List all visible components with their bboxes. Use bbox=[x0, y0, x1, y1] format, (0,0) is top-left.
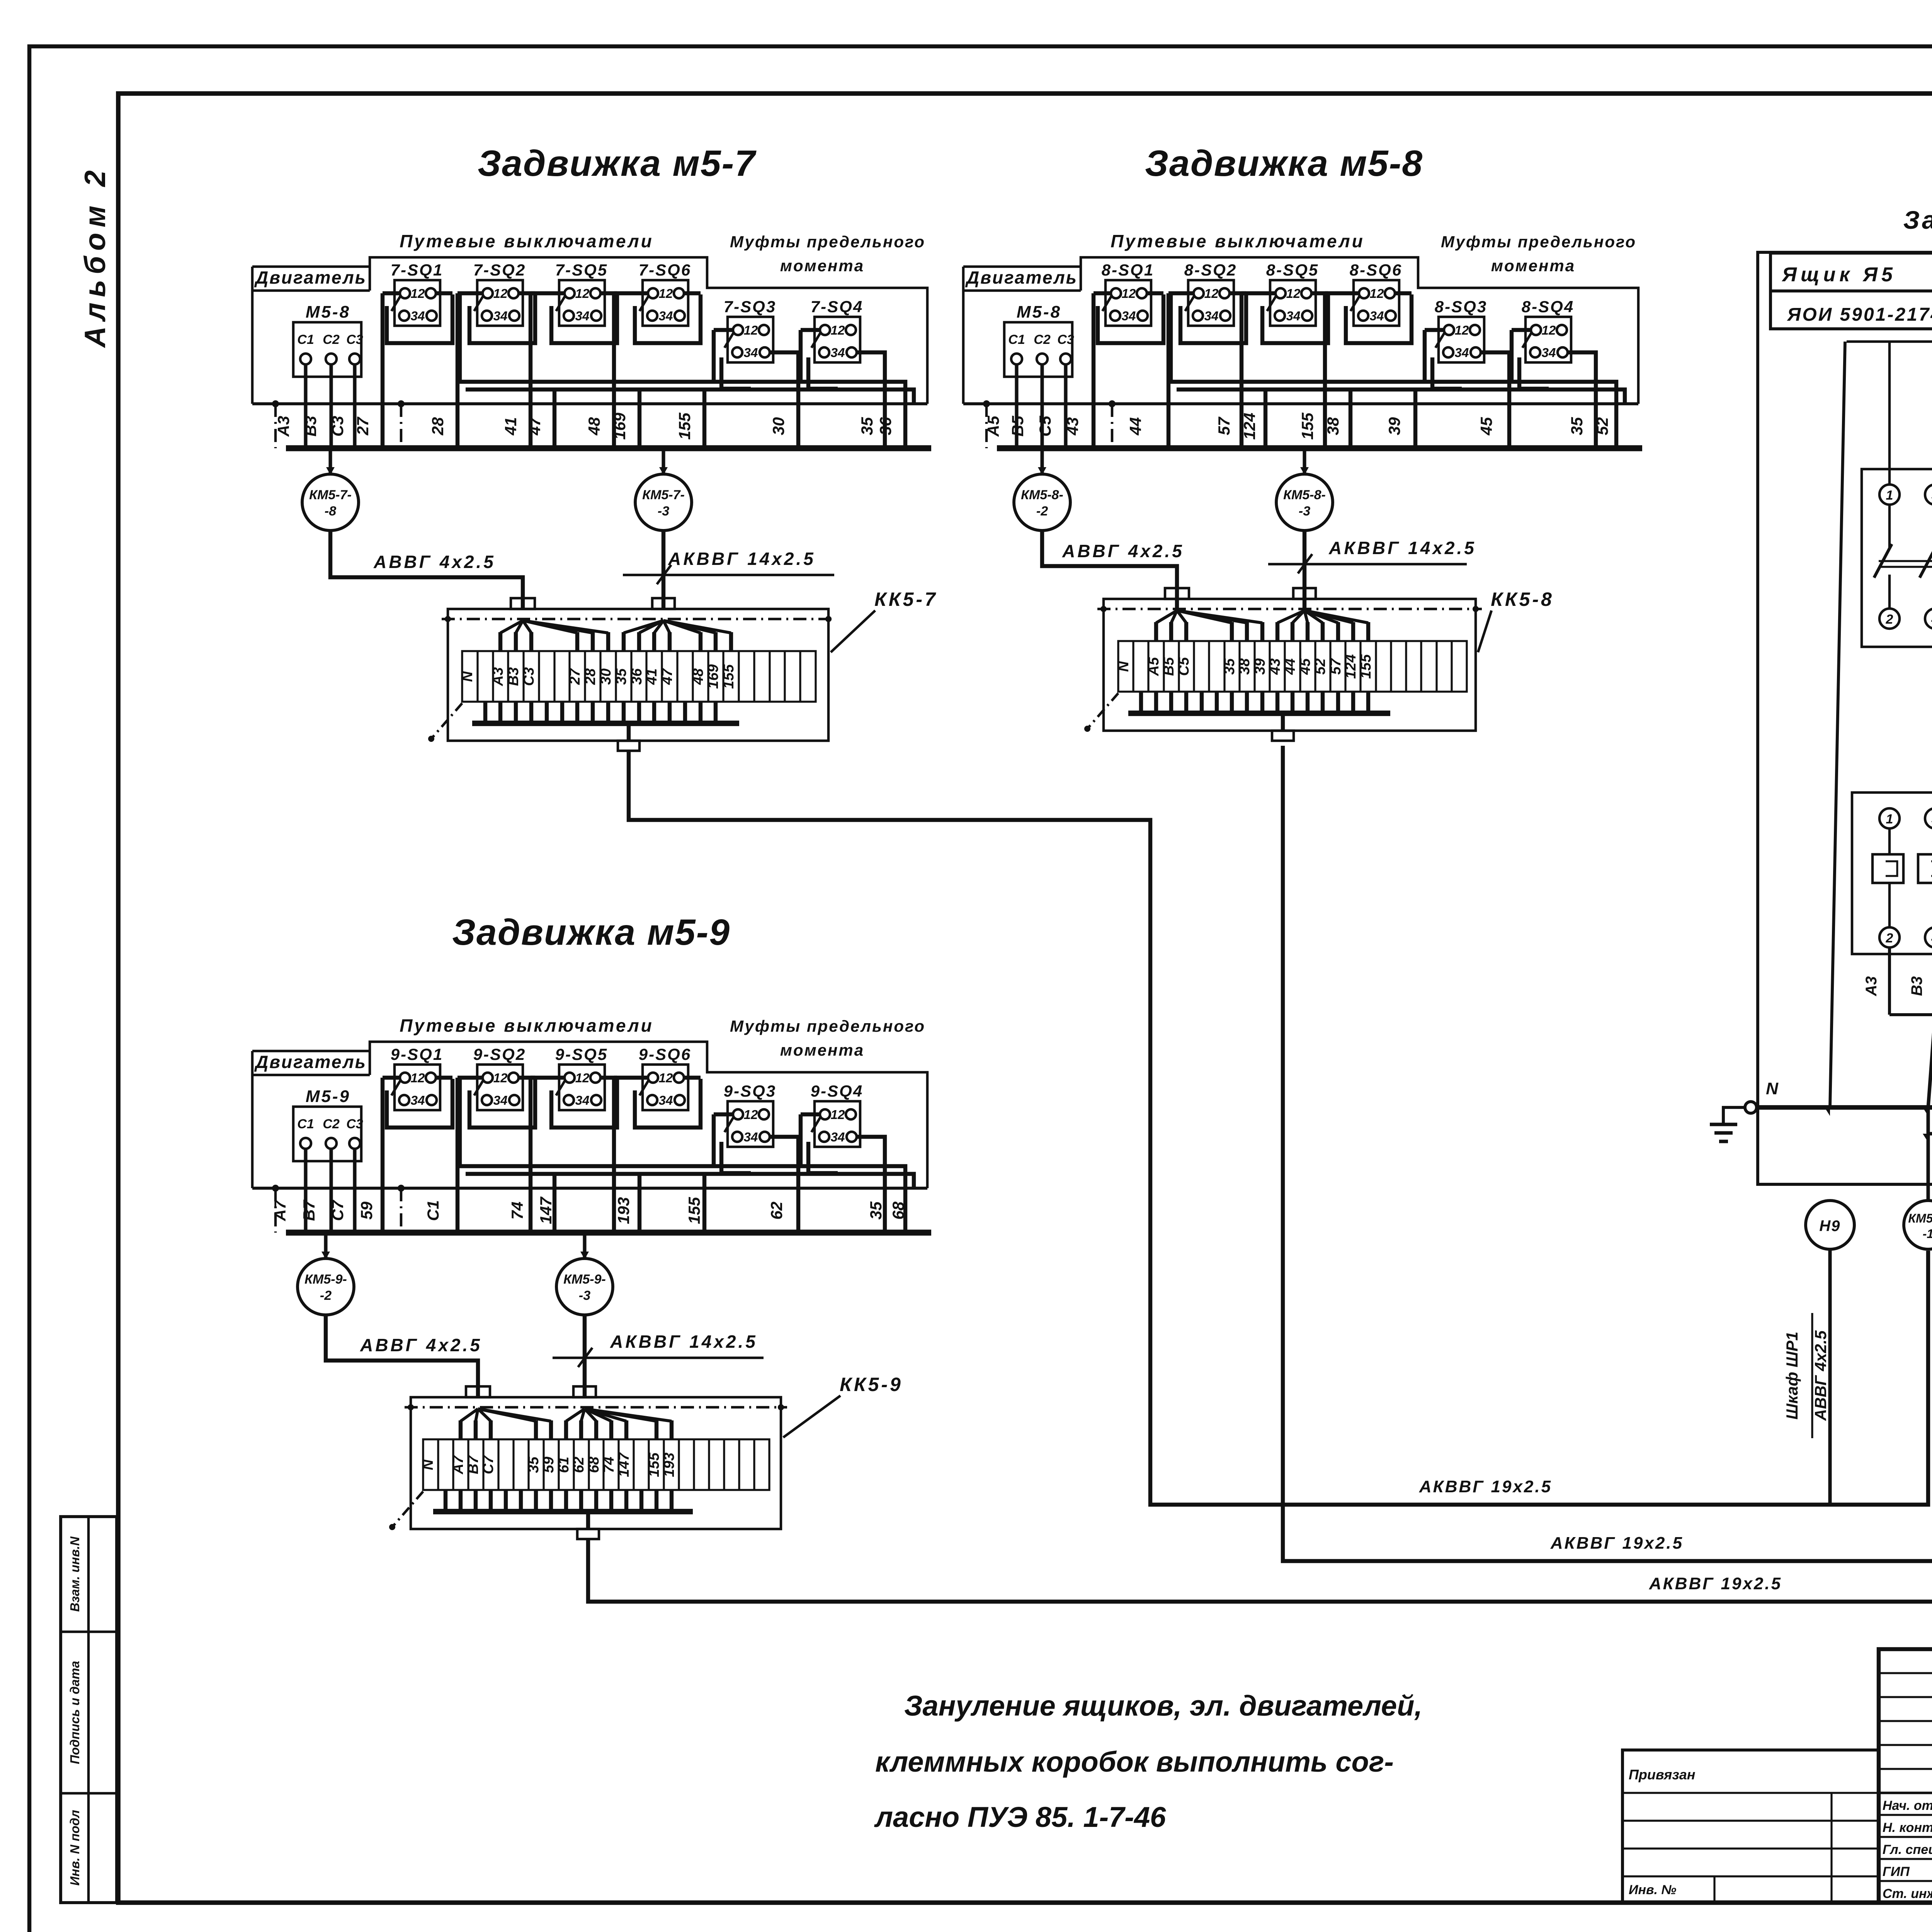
svg-text:C2: C2 bbox=[323, 332, 340, 347]
svg-text:А5: А5 bbox=[1146, 657, 1162, 676]
svg-text:48: 48 bbox=[690, 668, 706, 685]
contactor coil КМ5-8--3 bbox=[1303, 448, 1306, 475]
title block name rows bbox=[1879, 1814, 1932, 1816]
contactor coil КМ5-8--2 bbox=[1040, 448, 1044, 475]
svg-text:Ст. инж: Ст. инж bbox=[1883, 1886, 1932, 1901]
svg-text:1: 1 bbox=[1886, 488, 1893, 503]
terminal block КК5-7 top tabs bbox=[511, 598, 535, 609]
svg-text:34: 34 bbox=[659, 1093, 673, 1107]
wire to 9-SQ3 TL bbox=[714, 1112, 734, 1116]
svg-text:Путевые выключатели: Путевые выключатели bbox=[400, 231, 654, 251]
actuator mark 8-SQ6 bbox=[1350, 296, 1360, 311]
svg-text:34: 34 bbox=[1204, 309, 1219, 323]
contactor coil КМ5-7--8 bbox=[328, 448, 332, 475]
terminal block КК5-7 outline bbox=[448, 609, 828, 741]
actuator mark 9-SQ6 bbox=[639, 1080, 649, 1095]
wire to 8-SQ1 TL bbox=[1094, 291, 1112, 295]
wire TR stub 9-SQ1 bbox=[435, 1076, 452, 1080]
svg-text:30: 30 bbox=[598, 668, 614, 685]
svg-text:35: 35 bbox=[613, 668, 629, 685]
wire TR stub 8-SQ6 bbox=[1395, 291, 1412, 295]
svg-text:34: 34 bbox=[575, 309, 590, 323]
svg-text:9-SQ2: 9-SQ2 bbox=[473, 1045, 526, 1064]
dash-dot drop M5-9 b bbox=[400, 1188, 403, 1233]
svg-text:8-SQ1: 8-SQ1 bbox=[1102, 261, 1154, 279]
wire to 9-SQ6 TL bbox=[614, 1076, 649, 1080]
motor terminal C2 M5-9 bbox=[326, 1138, 337, 1149]
QГ pole 4 bottom terminal bbox=[1925, 609, 1932, 629]
svg-text:61: 61 bbox=[556, 1457, 572, 1473]
enclosure switches M5-9 bbox=[370, 1042, 927, 1188]
dash-dot drop M5-8 a bbox=[985, 404, 988, 448]
svg-text:КМ5-7-: КМ5-7- bbox=[309, 488, 352, 502]
wire to 9-SQ5 TL bbox=[531, 1076, 565, 1080]
svg-text:Привязан: Привязан bbox=[1629, 1767, 1696, 1782]
terminal block КК5-8 dash-dot axis bbox=[1097, 608, 1482, 611]
svg-text:АКВВГ 14х2.5: АКВВГ 14х2.5 bbox=[610, 1332, 758, 1352]
svg-text:Муфты предельного: Муфты предельного bbox=[1441, 233, 1636, 251]
svg-text:М5-8: М5-8 bbox=[306, 303, 350, 321]
svg-text:N: N bbox=[459, 671, 476, 682]
enclosure Двигатель M5-8 bbox=[963, 265, 1081, 268]
wire to 8-SQ2 TL bbox=[1168, 291, 1194, 295]
svg-text:155: 155 bbox=[685, 1197, 703, 1224]
svg-text:41: 41 bbox=[644, 668, 660, 685]
svg-text:С7: С7 bbox=[480, 1455, 497, 1474]
svg-text:С7: С7 bbox=[328, 1200, 347, 1221]
svg-text:-1: -1 bbox=[1923, 1227, 1932, 1241]
svg-text:М5-9: М5-9 bbox=[306, 1087, 350, 1106]
wire drop at 7-SQ6 bbox=[612, 293, 616, 448]
bus L2 horizontal bbox=[1928, 1132, 1932, 1135]
wire drop at 8-SQ1 bbox=[1092, 293, 1095, 448]
svg-text:А3: А3 bbox=[1863, 976, 1880, 996]
svg-text:59: 59 bbox=[541, 1457, 557, 1473]
svg-text:7-SQ4: 7-SQ4 bbox=[811, 298, 863, 316]
mid wire drops M5-9 bbox=[553, 1174, 556, 1233]
actuator mark 9-SQ5 bbox=[556, 1080, 565, 1095]
wire drop at 7-SQ3 bbox=[712, 330, 716, 382]
svg-text:7-SQ3: 7-SQ3 bbox=[724, 298, 776, 316]
wire to 9-SQ4 TL bbox=[801, 1112, 821, 1116]
contactor coil КМ5-9--2 bbox=[324, 1233, 327, 1259]
terminal block КК5-9 bottom tab bbox=[577, 1529, 599, 1539]
svg-text:41: 41 bbox=[502, 417, 520, 436]
cable АКВВГ 14х2.5 M5-7 bbox=[662, 531, 665, 609]
svg-text:АКВВГ 19х2.5: АКВВГ 19х2.5 bbox=[1550, 1534, 1684, 1553]
svg-text:А5: А5 bbox=[984, 416, 1002, 437]
svg-text:В3: В3 bbox=[1908, 976, 1925, 996]
svg-text:155: 155 bbox=[646, 1452, 662, 1477]
svg-text:27: 27 bbox=[567, 668, 583, 685]
svg-text:С1: С1 bbox=[424, 1200, 442, 1221]
actuator mark 9-SQ4 bbox=[811, 1117, 821, 1132]
svg-text:34: 34 bbox=[493, 1093, 508, 1107]
dash-dot drop M5-9 a bbox=[274, 1188, 277, 1233]
enclosure Двигатель M5-7 bbox=[252, 265, 370, 268]
motor wires M5-7 bbox=[304, 364, 307, 448]
svg-text:C3: C3 bbox=[346, 332, 363, 347]
svg-text:C1: C1 bbox=[297, 332, 314, 347]
svg-text:57: 57 bbox=[1215, 417, 1233, 435]
bus N horizontal bbox=[1757, 1105, 1932, 1110]
svg-text:Гл. спец.: Гл. спец. bbox=[1883, 1842, 1932, 1857]
svg-text:2: 2 bbox=[1886, 612, 1893, 627]
actuator mark 9-SQ1 bbox=[391, 1080, 401, 1095]
svg-text:9-SQ1: 9-SQ1 bbox=[391, 1045, 443, 1064]
svg-text:Зануление ящиков, эл. двигател: Зануление ящиков, эл. двигателей, bbox=[904, 1690, 1422, 1722]
enclosure switches M5-8 bbox=[1081, 257, 1638, 404]
actuator mark 7-SQ1 bbox=[391, 296, 401, 311]
svg-text:1: 1 bbox=[1886, 812, 1893, 827]
svg-text:8-SQ6: 8-SQ6 bbox=[1350, 261, 1402, 279]
wire U under 7-SQ5 bbox=[551, 294, 617, 343]
QГ linkage bar bbox=[1879, 560, 1932, 562]
svg-text:АВВГ 4х2.5: АВВГ 4х2.5 bbox=[373, 552, 496, 572]
cable АВВГ 4х2.5 M5-8 bbox=[1042, 531, 1177, 609]
wire to 7-SQ1 TL bbox=[383, 291, 401, 295]
contactor coil КМ5-7--3 bbox=[662, 448, 665, 475]
svg-text:Инв. N подл: Инв. N подл bbox=[68, 1810, 82, 1886]
svg-text:47: 47 bbox=[659, 668, 675, 685]
bus line M5-9 bbox=[252, 1187, 927, 1190]
КК1 pole wire 1 bbox=[1888, 828, 1891, 854]
svg-text:В3: В3 bbox=[301, 416, 320, 437]
wire to 7-SQ3 TL bbox=[714, 328, 734, 332]
wire U under 8-SQ6 bbox=[1346, 294, 1412, 343]
svg-text:С3: С3 bbox=[521, 667, 537, 686]
svg-text:В3: В3 bbox=[505, 667, 522, 686]
wire BR stub 8-SQ4 bbox=[1567, 352, 1596, 448]
box Я5 bottom junction wedges bbox=[1825, 1107, 1830, 1116]
wire drop at 9-SQ1 bbox=[381, 1078, 384, 1233]
earth symbol bbox=[1710, 1122, 1737, 1126]
svg-text:12: 12 bbox=[411, 286, 425, 301]
terminal block КК5-7 bottom rail bbox=[472, 721, 739, 726]
svg-text:А7: А7 bbox=[450, 1455, 466, 1475]
svg-text:ГИП: ГИП bbox=[1883, 1864, 1910, 1879]
svg-text:Взам. инв.N: Взам. инв.N bbox=[68, 1536, 82, 1612]
QГ pole 3 top terminal bbox=[1925, 485, 1932, 505]
svg-text:КК5-8: КК5-8 bbox=[1491, 588, 1554, 610]
svg-text:28: 28 bbox=[429, 417, 447, 435]
wire TR stub 8-SQ2 bbox=[1229, 291, 1246, 295]
svg-text:Подпись и дата: Подпись и дата bbox=[68, 1661, 82, 1764]
svg-text:12: 12 bbox=[744, 1107, 758, 1122]
svg-text:35: 35 bbox=[867, 1201, 885, 1219]
svg-text:Задвижка м5-7: Задвижка м5-7 bbox=[478, 143, 757, 184]
left stamp boxes bbox=[61, 1517, 117, 1903]
wire BR stub 9-SQ3 bbox=[769, 1137, 798, 1233]
svg-text:44: 44 bbox=[1282, 658, 1298, 675]
svg-text:147: 147 bbox=[537, 1196, 555, 1224]
terminal block КК5-7 bottom stubs bbox=[483, 702, 487, 723]
terminal block КК5-7 top stubs bbox=[500, 621, 523, 633]
actuator mark 7-SQ6 bbox=[639, 296, 649, 311]
svg-text:62: 62 bbox=[767, 1202, 786, 1220]
terminal block КК5-7 dash-dot corner bbox=[431, 703, 462, 739]
QГ blade 1 bbox=[1874, 544, 1892, 578]
actuator mark 7-SQ5 bbox=[556, 296, 565, 311]
svg-text:В7: В7 bbox=[300, 1200, 318, 1221]
wire hook under 9-SQ3 bbox=[721, 1142, 751, 1173]
КК1 terminal 2 bbox=[1879, 927, 1900, 947]
svg-text:АВВГ 4х2.5: АВВГ 4х2.5 bbox=[360, 1335, 482, 1355]
svg-text:Шкаф ШР1: Шкаф ШР1 bbox=[1783, 1332, 1801, 1420]
wire to 7-SQ6 TL bbox=[614, 291, 649, 295]
svg-text:С5: С5 bbox=[1036, 416, 1054, 437]
wire hook under 8-SQ4 bbox=[1519, 357, 1549, 389]
svg-text:8-SQ3: 8-SQ3 bbox=[1435, 298, 1487, 316]
motor terminal C1 M5-7 bbox=[300, 354, 311, 364]
collector rail M5-9 bbox=[286, 1230, 931, 1236]
svg-text:М5-8: М5-8 bbox=[1017, 303, 1061, 321]
wire U under 8-SQ5 bbox=[1262, 294, 1328, 343]
svg-text:27: 27 bbox=[354, 417, 372, 435]
cable run КК5-7 to КМ5-7-1 АКВВГ 19х2.5 bbox=[629, 751, 1928, 1505]
cable АВВГ 4х2.5 M5-7 bbox=[330, 531, 523, 609]
svg-text:43: 43 bbox=[1063, 417, 1082, 436]
wire to 7-SQ5 TL bbox=[531, 291, 565, 295]
svg-text:КК5-9: КК5-9 bbox=[840, 1374, 903, 1395]
svg-text:124: 124 bbox=[1343, 654, 1359, 679]
wire drop at 9-SQ2 bbox=[456, 1078, 459, 1233]
svg-text:АКВВГ 14х2.5: АКВВГ 14х2.5 bbox=[1328, 538, 1476, 558]
wire drop at 8-SQ4 bbox=[1510, 330, 1514, 382]
lamp Н9 bbox=[1806, 1201, 1854, 1249]
svg-text:12: 12 bbox=[659, 286, 673, 301]
motor wires M5-8 bbox=[1015, 364, 1018, 448]
svg-text:68: 68 bbox=[586, 1456, 602, 1473]
svg-text:44: 44 bbox=[1126, 417, 1145, 436]
bus line M5-8 bbox=[963, 402, 1638, 405]
svg-text:155: 155 bbox=[1358, 654, 1374, 679]
svg-text:45: 45 bbox=[1477, 417, 1495, 435]
svg-text:9-SQ6: 9-SQ6 bbox=[639, 1045, 691, 1064]
motor terminal C1 M5-8 bbox=[1011, 354, 1022, 364]
svg-text:КМ5-7-: КМ5-7- bbox=[642, 488, 685, 502]
wire to 9-SQ2 TL bbox=[457, 1076, 483, 1080]
disconnector QГ box bbox=[1862, 469, 1932, 647]
wire TR stub 9-SQ2 bbox=[518, 1076, 535, 1080]
svg-text:7-SQ5: 7-SQ5 bbox=[555, 261, 608, 279]
svg-text:9-SQ4: 9-SQ4 bbox=[811, 1082, 863, 1100]
wire TR stub 8-SQ5 bbox=[1311, 291, 1328, 295]
long interconnect wire 1 M5-7 bbox=[460, 293, 905, 448]
wire to 7-SQ4 TL bbox=[801, 328, 821, 332]
wire hook under 7-SQ4 bbox=[808, 357, 838, 389]
terminal block КК5-9 terminal row bbox=[423, 1439, 769, 1490]
svg-text:74: 74 bbox=[601, 1457, 617, 1473]
svg-text:34: 34 bbox=[1122, 309, 1136, 323]
svg-text:Нач. отд: Нач. отд bbox=[1883, 1798, 1932, 1813]
cable run КК5-8 to КМ5-9-1 АКВВГ 19х2.5 bbox=[1283, 746, 1932, 1561]
wire U under 7-SQ1 bbox=[387, 294, 452, 343]
КК1 phase wires А3 В3 С3 bbox=[1888, 947, 1891, 1015]
svg-text:12: 12 bbox=[831, 323, 845, 337]
enclosure switches M5-7 bbox=[370, 257, 927, 404]
svg-text:8-SQ2: 8-SQ2 bbox=[1184, 261, 1237, 279]
КК1 terminal 4 bbox=[1925, 927, 1932, 947]
svg-text:34: 34 bbox=[1370, 309, 1384, 323]
svg-text:34: 34 bbox=[744, 345, 758, 360]
svg-text:12: 12 bbox=[1286, 286, 1301, 301]
motor terminal C3 M5-7 bbox=[349, 354, 360, 364]
svg-text:34: 34 bbox=[493, 309, 508, 323]
svg-text:62: 62 bbox=[571, 1457, 587, 1473]
wire drop at 8-SQ2 bbox=[1167, 293, 1170, 448]
long interconnect wire 2 M5-7 bbox=[466, 389, 914, 404]
svg-text:30: 30 bbox=[769, 417, 787, 435]
actuator mark 8-SQ1 bbox=[1102, 296, 1112, 311]
svg-text:клеммных коробок выполнить: клеммных коробок выполнить сог- bbox=[875, 1746, 1394, 1778]
wire U under 8-SQ1 bbox=[1098, 294, 1163, 343]
svg-text:9-SQ5: 9-SQ5 bbox=[555, 1045, 608, 1064]
actuator mark 7-SQ2 bbox=[474, 296, 483, 311]
wire TR stub 9-SQ6 bbox=[684, 1076, 701, 1080]
enclosure Двигатель M5-9 bbox=[252, 1050, 370, 1053]
svg-text:12: 12 bbox=[1370, 286, 1384, 301]
wire drop at 9-SQ4 bbox=[799, 1114, 803, 1166]
binding table Привязан bbox=[1622, 1750, 1879, 1903]
svg-text:2: 2 bbox=[1886, 931, 1893, 946]
cable run КК5-9 to КМ5-8-1 АКВВГ 19х2.5 bbox=[588, 1251, 1932, 1602]
wire BR stub 8-SQ3 bbox=[1480, 352, 1509, 448]
terminal block КК5-7 bottom tab bbox=[618, 741, 639, 751]
wire drop at 8-SQ5 bbox=[1240, 293, 1243, 448]
svg-text:КМ5-9-: КМ5-9- bbox=[563, 1272, 606, 1287]
wire drop at 9-SQ5 bbox=[529, 1078, 532, 1233]
svg-text:9-SQ3: 9-SQ3 bbox=[724, 1082, 776, 1100]
terminal block КК5-9 outline bbox=[411, 1397, 781, 1529]
svg-text:C1: C1 bbox=[297, 1117, 314, 1131]
collector rail M5-7 bbox=[286, 445, 931, 451]
wire U under 9-SQ5 bbox=[551, 1079, 617, 1128]
svg-text:12: 12 bbox=[831, 1107, 845, 1122]
svg-text:Путевые выключатели: Путевые выключатели bbox=[400, 1015, 654, 1036]
svg-text:7-SQ2: 7-SQ2 bbox=[473, 261, 526, 279]
wire hook under 9-SQ4 bbox=[808, 1142, 838, 1173]
wire КК1 to КМ5-7-1 bbox=[1928, 1015, 1932, 1201]
title block frame bbox=[1879, 1649, 1932, 1903]
wire hook under 7-SQ3 bbox=[721, 357, 751, 389]
motor box М5-8 bbox=[1004, 322, 1072, 377]
long interconnect wire 1 M5-8 bbox=[1171, 293, 1616, 448]
QГ supply drop to Н9 bbox=[1830, 342, 1845, 1107]
wire BR stub 9-SQ4 bbox=[856, 1137, 885, 1233]
svg-text:Альбом 2: Альбом 2 bbox=[79, 165, 112, 348]
wire drop at 9-SQ6 bbox=[612, 1078, 616, 1233]
terminal block КК5-8 top stubs bbox=[1156, 611, 1177, 623]
svg-text:-8: -8 bbox=[325, 504, 336, 519]
svg-text:12: 12 bbox=[493, 286, 508, 301]
collector rail M5-8 bbox=[997, 445, 1642, 451]
svg-text:47: 47 bbox=[526, 417, 544, 435]
wire drop at 9-SQ3 bbox=[712, 1114, 716, 1166]
svg-text:А3: А3 bbox=[490, 667, 506, 687]
motor terminal C2 M5-8 bbox=[1037, 354, 1048, 364]
svg-text:-2: -2 bbox=[1036, 504, 1048, 519]
terminal block КК5-8 terminal row bbox=[1118, 641, 1467, 692]
terminal block КК5-9 bottom stubs bbox=[444, 1490, 447, 1512]
svg-text:59: 59 bbox=[357, 1201, 376, 1219]
svg-text:Н9: Н9 bbox=[1819, 1218, 1840, 1235]
svg-text:-3: -3 bbox=[658, 504, 669, 519]
wire drop at 7-SQ2 bbox=[456, 293, 459, 448]
svg-text:155: 155 bbox=[1298, 412, 1316, 440]
wire U under 8-SQ2 bbox=[1180, 294, 1246, 343]
terminal block КК5-8 dash-dot corner bbox=[1087, 693, 1118, 729]
svg-text:N: N bbox=[420, 1459, 436, 1470]
svg-text:8-SQ5: 8-SQ5 bbox=[1266, 261, 1319, 279]
svg-text:Задвижек насосов песколово: Задвижек насосов песколовок bbox=[1903, 206, 1932, 234]
svg-text:35: 35 bbox=[526, 1456, 542, 1473]
svg-text:7-SQ6: 7-SQ6 bbox=[639, 261, 691, 279]
motor terminal C3 M5-8 bbox=[1060, 354, 1071, 364]
terminal block КК5-8 top tabs bbox=[1165, 588, 1189, 599]
actuator mark 9-SQ2 bbox=[474, 1080, 483, 1095]
svg-text:155: 155 bbox=[675, 412, 694, 440]
svg-text:12: 12 bbox=[744, 323, 758, 337]
svg-text:-3: -3 bbox=[579, 1288, 590, 1303]
wire U under 7-SQ6 bbox=[635, 294, 701, 343]
svg-text:34: 34 bbox=[831, 1130, 845, 1144]
dash-dot drop M5-8 b bbox=[1111, 404, 1114, 448]
svg-text:Муфты предельного: Муфты предельного bbox=[730, 1017, 925, 1035]
svg-text:C3: C3 bbox=[1057, 332, 1074, 347]
svg-text:12: 12 bbox=[575, 1071, 590, 1085]
motor wires M5-9 bbox=[304, 1149, 307, 1233]
wire to 8-SQ4 TL bbox=[1512, 328, 1532, 332]
КК1 heater element 1 bbox=[1872, 854, 1903, 883]
svg-text:КМ5-8-: КМ5-8- bbox=[1021, 488, 1063, 502]
svg-text:С3: С3 bbox=[328, 416, 347, 437]
thermal relay КК1 box bbox=[1852, 793, 1932, 954]
svg-text:35: 35 bbox=[858, 417, 876, 435]
svg-text:Задвижка м5-9: Задвижка м5-9 bbox=[452, 912, 730, 953]
svg-text:А7: А7 bbox=[271, 1200, 289, 1221]
wire to 7-SQ2 TL bbox=[457, 291, 483, 295]
svg-text:-2: -2 bbox=[320, 1288, 332, 1303]
svg-text:момента: момента bbox=[780, 1041, 864, 1059]
svg-text:147: 147 bbox=[616, 1452, 632, 1477]
svg-text:48: 48 bbox=[585, 417, 603, 435]
svg-text:28: 28 bbox=[582, 668, 599, 685]
bus line M5-7 bbox=[252, 402, 927, 405]
svg-text:34: 34 bbox=[659, 309, 673, 323]
svg-text:-3: -3 bbox=[1299, 504, 1310, 519]
svg-text:Муфты предельного: Муфты предельного bbox=[730, 233, 925, 251]
svg-text:34: 34 bbox=[744, 1130, 758, 1144]
svg-text:АКВВГ 19х2.5: АКВВГ 19х2.5 bbox=[1419, 1477, 1552, 1496]
actuator mark 7-SQ4 bbox=[811, 332, 821, 348]
motor terminal C2 M5-7 bbox=[326, 354, 337, 364]
svg-text:АВВГ 4х2.5: АВВГ 4х2.5 bbox=[1062, 541, 1184, 561]
svg-text:КК5-7: КК5-7 bbox=[874, 588, 938, 610]
svg-text:ласно ПУЭ 85. 1-7-46: ласно ПУЭ 85. 1-7-46 bbox=[874, 1801, 1166, 1833]
terminal block КК5-9 top stubs bbox=[461, 1409, 478, 1421]
svg-text:C2: C2 bbox=[1034, 332, 1051, 347]
motor terminal C1 M5-9 bbox=[300, 1138, 311, 1149]
svg-text:момента: момента bbox=[1491, 257, 1575, 275]
svg-text:169: 169 bbox=[705, 664, 721, 689]
QГ pole wires 1 bbox=[1888, 342, 1891, 485]
svg-text:36: 36 bbox=[629, 668, 645, 685]
svg-text:Н. контр.: Н. контр. bbox=[1883, 1820, 1932, 1835]
svg-text:155: 155 bbox=[721, 664, 737, 689]
svg-text:52: 52 bbox=[1312, 658, 1328, 675]
svg-text:Путевые выключатели: Путевые выключатели bbox=[1111, 231, 1365, 251]
